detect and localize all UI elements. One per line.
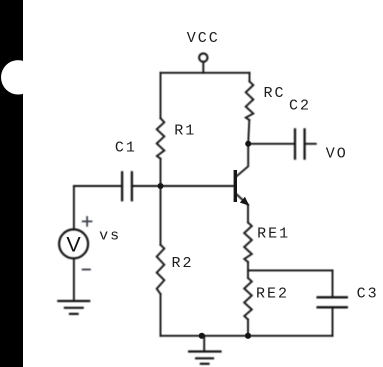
- transistor Q1 base bar: [234, 170, 237, 202]
- wire right vertical top: [249, 73, 251, 82]
- svg-text:R1: R1: [174, 122, 196, 139]
- svg-text:VCC: VCC: [187, 30, 220, 47]
- svg-text:C1: C1: [115, 140, 137, 157]
- svg-text:C3: C3: [357, 286, 379, 303]
- source vs circle: [59, 229, 88, 258]
- wire C1 to base: [132, 185, 234, 187]
- wire vs top lead: [73, 186, 75, 229]
- wire emitter to RE1: [247, 205, 249, 223]
- wire left vertical upper: [160, 73, 162, 118]
- sidebar webcam bubble notch: [1, 60, 35, 94]
- wire C2 to VO: [305, 143, 316, 145]
- resistor RE1: [244, 223, 252, 263]
- wire RE2 to bottom rail: [247, 320, 249, 336]
- wire tap to RE2: [247, 270, 249, 278]
- wire collector node to C2: [248, 143, 295, 145]
- plus sign of vs: [83, 217, 92, 226]
- wire C3 bottom lead: [332, 307, 334, 336]
- svg-text:R2: R2: [172, 255, 194, 272]
- ground vs: [58, 301, 89, 314]
- svg-text:C2: C2: [289, 98, 311, 115]
- wire R2 to bottom rail: [160, 294, 162, 336]
- junction collector node: [245, 141, 251, 147]
- svg-text:RE2: RE2: [256, 286, 289, 303]
- wire R1 to base node: [160, 159, 162, 186]
- resistor RE2: [244, 278, 252, 320]
- minus sign of vs: [83, 269, 90, 271]
- wire RC to collector node: [248, 120, 249, 144]
- node VCC terminal: [199, 53, 207, 61]
- capacitor C1: [122, 172, 132, 200]
- wire base node to R2: [160, 186, 162, 245]
- capacitor C3: [318, 297, 347, 307]
- resistor RC: [246, 82, 254, 121]
- capacitor C2: [295, 129, 305, 158]
- transistor Q1 collector lead: [237, 144, 249, 176]
- resistor R2: [157, 245, 165, 294]
- ground main: [189, 352, 220, 364]
- wire input corner to C1: [74, 185, 122, 187]
- ground main stub: [203, 336, 205, 352]
- svg-text:VO: VO: [326, 145, 348, 162]
- wire VCC stub: [202, 62, 204, 73]
- wire top rail: [161, 72, 250, 74]
- left black sidebar: [0, 0, 23, 367]
- junction base node: [158, 183, 164, 189]
- svg-text:vs: vs: [99, 228, 121, 245]
- transistor Q1 emitter arrow: [240, 197, 249, 206]
- wire RE1 to tap: [247, 262, 249, 270]
- junction ground node: [199, 333, 205, 339]
- wire tap to C3: [248, 269, 333, 271]
- wire vs bottom lead: [73, 259, 75, 302]
- resistor R1: [157, 118, 165, 159]
- wire bottom rail: [161, 335, 333, 337]
- svg-text:RE1: RE1: [257, 226, 290, 243]
- wire C3 top lead: [332, 270, 334, 297]
- svg-text:RC: RC: [264, 85, 286, 102]
- transistor Q1 emitter lead: [237, 194, 248, 205]
- junction emitter bottom node: [245, 333, 251, 339]
- svg-text:V: V: [66, 233, 81, 257]
